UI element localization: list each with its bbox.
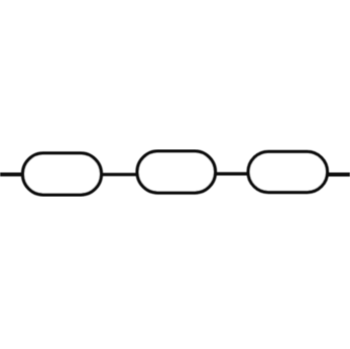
gasket port ring 2 bbox=[137, 151, 215, 193]
wire: horizontal carrier line left segment bbox=[0, 172, 23, 176]
wire: connector between port 1 and port 2 bbox=[100, 173, 138, 176]
wire: connector between port 2 and port 3 bbox=[214, 172, 250, 175]
gasket port ring 1 bbox=[23, 153, 102, 195]
gasket port ring 3 bbox=[248, 152, 327, 193]
wire: horizontal carrier line right segment bbox=[327, 173, 350, 177]
